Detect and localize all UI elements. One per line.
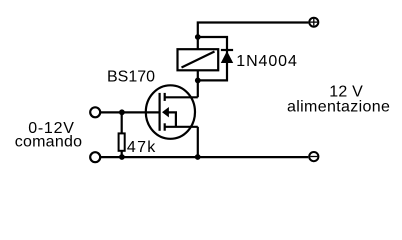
mosfet body circle <box>146 85 195 139</box>
relay coil <box>178 49 219 70</box>
mosfet drain tick <box>164 93 166 101</box>
junction dot source/bottom rail <box>195 154 201 160</box>
terminal input lower <box>90 152 100 162</box>
wire top positive rail <box>198 23 309 98</box>
terminal minus (supply -) <box>309 152 318 161</box>
svg-text:1N4004: 1N4004 <box>236 53 297 70</box>
transistor BS170 (MOSFET) <box>146 85 198 139</box>
junction dot gate/resistor <box>119 109 125 115</box>
svg-text:47k: 47k <box>127 139 157 156</box>
svg-text:alimentazione: alimentazione <box>287 98 390 115</box>
junction dot above relay <box>195 34 201 40</box>
wire resistor bottom lead <box>121 151 123 157</box>
wire gate <box>100 111 159 113</box>
terminal input upper <box>90 107 100 117</box>
wire resistor top lead <box>121 112 123 133</box>
mosfet gate bar <box>159 93 161 131</box>
mosfet source tick <box>164 123 166 130</box>
wire source to bottom rail <box>197 127 199 157</box>
svg-text:BS170: BS170 <box>107 69 155 86</box>
resistor 47k <box>119 133 125 150</box>
wire diode branch <box>198 37 227 80</box>
mosfet body arrow head <box>163 108 169 116</box>
terminal plus (supply +) <box>309 18 318 27</box>
wire bottom rail <box>100 156 308 158</box>
mosfet drain line <box>165 96 198 98</box>
mosfet body arrow stem <box>168 112 176 126</box>
diode 1N4004 <box>221 50 233 63</box>
mosfet source line <box>165 126 198 128</box>
svg-text:comando: comando <box>15 134 83 151</box>
junction dot below relay <box>195 78 201 84</box>
junction dot resistor/bottom rail <box>119 154 125 160</box>
